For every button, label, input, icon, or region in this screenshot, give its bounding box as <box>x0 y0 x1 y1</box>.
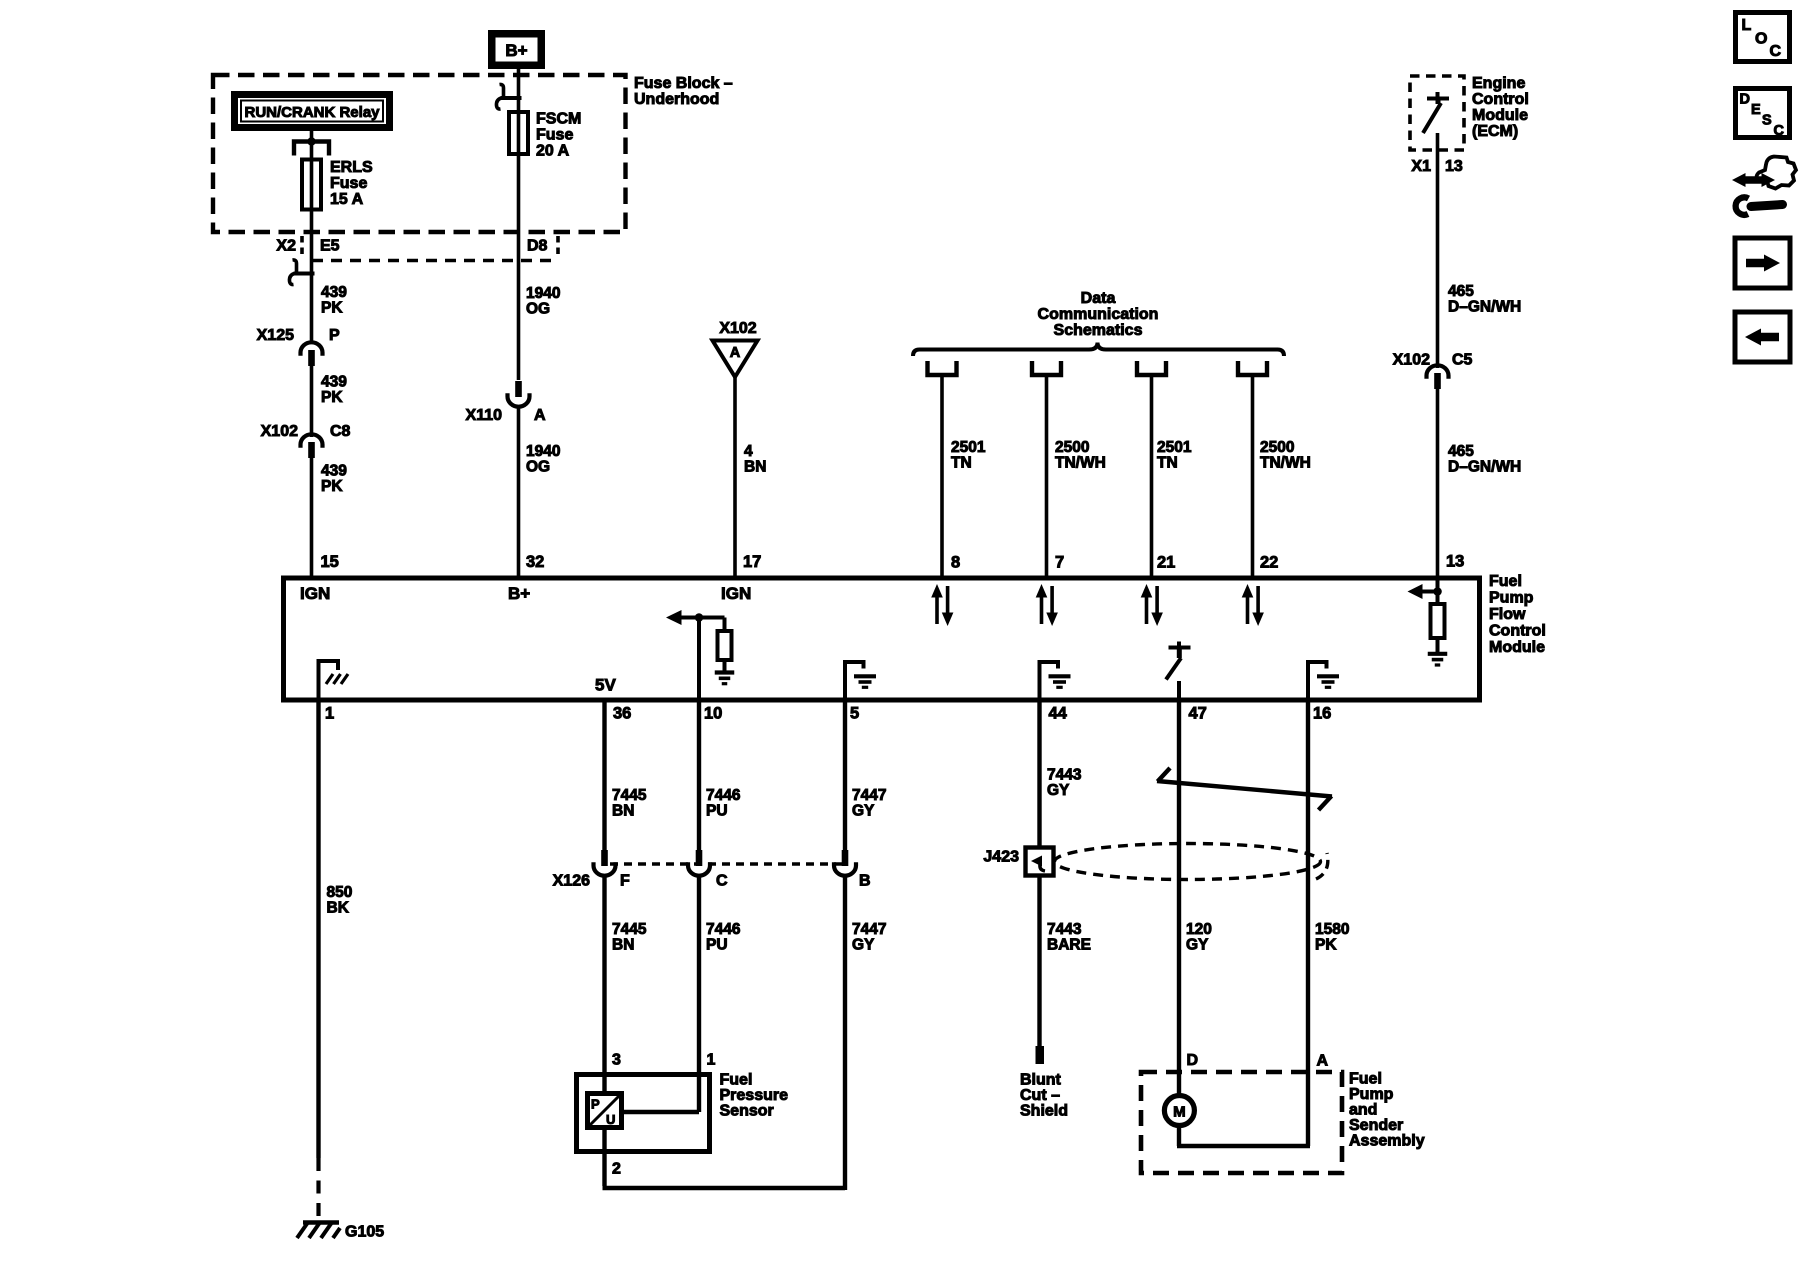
svg-text:17: 17 <box>743 553 761 571</box>
internal arrow, resistor, ground at pin 13 <box>1408 578 1448 665</box>
connector X102 pin C5 <box>1427 365 1449 389</box>
svg-text:D–GN/WH: D–GN/WH <box>1448 299 1521 316</box>
svg-text:439: 439 <box>321 374 347 391</box>
svg-text:BK: BK <box>327 900 350 917</box>
svg-text:7445: 7445 <box>612 787 647 804</box>
svg-text:Fuse Block –: Fuse Block – <box>634 75 733 92</box>
svg-text:Control: Control <box>1472 91 1529 108</box>
svg-text:A: A <box>730 345 741 361</box>
data comm terminal / wire 2501 TN pin 8 <box>928 361 986 576</box>
svg-text:Shield: Shield <box>1020 1103 1068 1120</box>
svg-text:PK: PK <box>321 300 343 317</box>
svg-text:32: 32 <box>526 553 544 571</box>
connector X110 pin A <box>508 381 530 407</box>
svg-text:439: 439 <box>321 284 347 301</box>
wire 7447 GY upper <box>843 701 847 850</box>
internal chassis ground at pin 1 <box>319 661 349 701</box>
svg-text:Flow: Flow <box>1489 606 1526 623</box>
svg-text:BARE: BARE <box>1047 937 1091 954</box>
fuel pump assembly dashed box <box>1141 1072 1342 1173</box>
svg-text:Blunt: Blunt <box>1020 1072 1062 1089</box>
svg-text:15 A: 15 A <box>330 191 364 208</box>
wire sensor return bottom <box>603 1186 846 1191</box>
wire 439 PK segment 2 <box>310 366 314 437</box>
svg-text:B+: B+ <box>508 584 530 603</box>
svg-text:O: O <box>1755 31 1767 48</box>
svg-text:E5: E5 <box>320 238 340 255</box>
up/down data arrows pin 8 <box>931 584 953 626</box>
wire 439 PK segment 3 into module pin 15 <box>310 458 314 576</box>
svg-text:FSCM: FSCM <box>536 111 581 128</box>
svg-text:Schematics: Schematics <box>1054 322 1143 339</box>
svg-text:IGN: IGN <box>721 584 751 603</box>
svg-text:20 A: 20 A <box>536 143 570 160</box>
svg-text:13: 13 <box>1446 553 1464 571</box>
svg-text:S: S <box>1762 113 1772 129</box>
svg-text:7446: 7446 <box>706 787 741 804</box>
wire 7446 PU upper <box>697 701 701 850</box>
svg-text:1580: 1580 <box>1315 921 1349 938</box>
connector X126 pin B <box>834 850 856 876</box>
up/down data arrows pin 22 <box>1242 584 1264 626</box>
svg-text:E: E <box>1751 102 1761 118</box>
svg-text:D–GN/WH: D–GN/WH <box>1448 459 1521 476</box>
svg-text:7447: 7447 <box>852 787 886 804</box>
svg-text:Pressure: Pressure <box>720 1087 789 1104</box>
label ERLS Fuse 15 A <box>330 159 373 208</box>
svg-text:1: 1 <box>325 705 334 723</box>
svg-text:G105: G105 <box>345 1224 384 1241</box>
shield dashed ellipse <box>1055 844 1321 880</box>
svg-text:X110: X110 <box>466 407 503 424</box>
splice arrow inside J423 <box>1031 856 1045 872</box>
power node B+ <box>488 30 545 69</box>
wire 7443 GY <box>1037 701 1041 848</box>
svg-text:PK: PK <box>321 478 343 495</box>
relay contact bracket terminal <box>294 137 329 155</box>
node X102 A triangle <box>713 320 758 377</box>
connector X126 pin C <box>688 850 710 876</box>
svg-text:Pump: Pump <box>1349 1086 1394 1103</box>
svg-text:22: 22 <box>1260 554 1278 572</box>
svg-text:L: L <box>1742 17 1752 34</box>
svg-text:Assembly: Assembly <box>1349 1133 1425 1150</box>
svg-text:5V: 5V <box>595 676 616 695</box>
svg-text:RUN/CRANK Relay: RUN/CRANK Relay <box>244 104 380 121</box>
svg-text:7443: 7443 <box>1047 921 1082 938</box>
wire 1940 OG segment 2 into module pin 32 <box>517 405 521 576</box>
svg-text:Data: Data <box>1081 290 1116 307</box>
X126 dashed connector line <box>610 862 845 866</box>
svg-text:3: 3 <box>612 1052 621 1069</box>
svg-text:44: 44 <box>1049 705 1068 723</box>
label Fuel Pump Flow Control Module <box>1489 573 1546 656</box>
svg-text:C: C <box>1774 123 1785 139</box>
label Fuse Block - Underhood <box>634 75 733 108</box>
wire 850 BK <box>316 701 320 1158</box>
svg-text:36: 36 <box>613 705 631 723</box>
svg-text:TN: TN <box>1157 455 1178 472</box>
splice J423 <box>983 848 1053 876</box>
svg-text:X102: X102 <box>1393 352 1430 369</box>
svg-text:Fuel: Fuel <box>1489 573 1522 590</box>
svg-text:A: A <box>534 407 546 424</box>
svg-text:D: D <box>1187 1052 1199 1069</box>
svg-text:8: 8 <box>951 554 960 572</box>
wire 4 BN into module pin 17 <box>733 375 737 576</box>
svg-text:2500: 2500 <box>1260 439 1294 456</box>
svg-text:U: U <box>606 1112 615 1127</box>
wire B+ to FSCM fuse <box>517 69 521 112</box>
connector X102 pin C8 <box>301 434 323 458</box>
data comm terminal / wire 2501 TN pin 21 <box>1137 361 1192 576</box>
svg-text:2500: 2500 <box>1055 439 1089 456</box>
svg-text:1940: 1940 <box>526 443 560 460</box>
wire 7445 BN lower <box>602 874 606 1095</box>
connector X125 pin P <box>301 342 323 366</box>
icon LOC button <box>1736 13 1790 62</box>
svg-text:X1: X1 <box>1411 158 1431 175</box>
wire 1940 OG segment 1 <box>517 232 521 380</box>
pump pins D and A <box>1187 1052 1329 1070</box>
svg-text:Underhood: Underhood <box>634 91 719 108</box>
wire 7445 BN upper <box>602 701 606 850</box>
svg-text:15: 15 <box>321 553 339 571</box>
wire 465 D-GN/WH segment 2 into module pin 13 <box>1436 389 1440 576</box>
label Fuel Pressure Sensor <box>720 1072 789 1120</box>
fuse ERLS 15A <box>302 160 321 233</box>
svg-text:850: 850 <box>327 884 353 901</box>
svg-text:7445: 7445 <box>612 921 647 938</box>
svg-text:1: 1 <box>707 1052 716 1069</box>
icon DESC button <box>1736 89 1790 140</box>
svg-text:X102: X102 <box>261 423 298 440</box>
brace for data communication <box>913 343 1284 357</box>
svg-text:GY: GY <box>852 937 875 954</box>
svg-text:Fuel: Fuel <box>720 1072 753 1089</box>
svg-text:Module: Module <box>1472 107 1528 124</box>
svg-text:C: C <box>1770 43 1782 60</box>
svg-text:P: P <box>591 1097 600 1112</box>
svg-text:X125: X125 <box>257 327 294 344</box>
svg-text:P: P <box>329 327 340 344</box>
internal ground at pin 5 <box>845 662 876 701</box>
svg-text:and: and <box>1349 1102 1377 1119</box>
svg-text:PU: PU <box>706 937 728 954</box>
svg-text:Communication: Communication <box>1038 306 1159 323</box>
svg-text:GY: GY <box>852 803 875 820</box>
terminal hook below ERLS fuse (X2 E5) <box>289 260 314 285</box>
data comm terminal / wire 2500 TN/WH pin 22 <box>1238 361 1311 576</box>
svg-text:Fuse: Fuse <box>330 175 367 192</box>
svg-text:D8: D8 <box>527 238 548 255</box>
svg-text:OG: OG <box>526 459 550 476</box>
label FSCM Fuse 20 A <box>536 111 581 160</box>
module U7: Fuel Pump Flow Control Module box <box>284 578 1480 700</box>
connector row X2: E5 / D8 <box>276 236 558 261</box>
svg-text:C5: C5 <box>1452 352 1473 369</box>
icon back arrow button <box>1735 312 1790 362</box>
switch inside ECM <box>1423 92 1449 133</box>
wire sensor pin 2 <box>605 1127 622 1186</box>
internal ground at pin 44 <box>1040 662 1071 701</box>
svg-text:C: C <box>716 873 728 890</box>
labels X126 F C B <box>553 873 871 890</box>
svg-text:X126: X126 <box>553 873 590 890</box>
fuse FSCM 20A <box>509 112 528 232</box>
label Data Communication Schematics <box>1038 290 1159 339</box>
svg-text:Sensor: Sensor <box>720 1103 774 1120</box>
svg-text:PK: PK <box>1315 937 1337 954</box>
wire 120 GY pin 47 to D <box>1177 701 1181 1097</box>
svg-text:439: 439 <box>321 463 347 480</box>
svg-text:Control: Control <box>1489 623 1546 640</box>
svg-text:5: 5 <box>850 705 859 723</box>
terminal hook above FSCM fuse <box>496 84 521 109</box>
svg-text:ERLS: ERLS <box>330 159 373 176</box>
connector row X1 pin 13 <box>1411 158 1462 175</box>
dashed wire to G105 <box>316 1158 320 1219</box>
svg-text:IGN: IGN <box>300 584 330 603</box>
wire motor to return <box>1177 1125 1181 1146</box>
svg-text:2501: 2501 <box>951 439 986 456</box>
ECM dashed box <box>1410 76 1464 150</box>
internal switch at pin 47 <box>1166 642 1191 702</box>
svg-text:OG: OG <box>526 301 550 318</box>
label Fuel Pump and Sender Assembly <box>1349 1071 1425 1150</box>
icon next arrow button <box>1735 238 1790 288</box>
svg-text:GY: GY <box>1047 782 1070 799</box>
svg-text:465: 465 <box>1448 283 1474 300</box>
label Engine Control Module (ECM) <box>1472 75 1529 140</box>
svg-text:TN: TN <box>951 455 972 472</box>
svg-text:D: D <box>1740 92 1750 108</box>
fuel pressure sensor box <box>577 1075 710 1152</box>
svg-text:120: 120 <box>1186 921 1212 938</box>
svg-text:PU: PU <box>706 803 728 820</box>
wire 7446 PU lower <box>697 874 701 1112</box>
sensor pins 3 and 1 <box>612 1052 716 1069</box>
svg-text:(ECM): (ECM) <box>1472 123 1518 140</box>
svg-text:Engine: Engine <box>1472 75 1525 92</box>
svg-text:J423: J423 <box>983 849 1019 866</box>
svg-text:F: F <box>620 873 630 890</box>
fuse block underhood dashed box <box>213 75 626 232</box>
svg-text:M: M <box>1173 1104 1186 1121</box>
svg-text:16: 16 <box>1313 705 1331 723</box>
wire pump return bottom <box>1177 1144 1310 1148</box>
svg-text:Module: Module <box>1489 639 1545 656</box>
svg-text:Fuel: Fuel <box>1349 1071 1382 1088</box>
svg-text:1940: 1940 <box>526 285 560 302</box>
svg-text:Fuse: Fuse <box>536 127 573 144</box>
svg-text:TN/WH: TN/WH <box>1260 455 1311 472</box>
pin labels below module <box>325 705 1331 723</box>
wire 465 D-GN/WH segment 1 <box>1436 133 1440 368</box>
blunt cut shield terminal <box>1020 1046 1068 1120</box>
wire 1580 PK pin 16 to A <box>1306 701 1310 1146</box>
svg-text:Sender: Sender <box>1349 1117 1403 1134</box>
up/down data arrows pin 21 <box>1141 584 1163 626</box>
wire 7443 BARE <box>1037 875 1041 1046</box>
svg-text:4: 4 <box>744 443 753 460</box>
relay K: RUN/CRANK Relay box <box>231 91 393 131</box>
svg-text:465: 465 <box>1448 443 1474 460</box>
svg-text:BN: BN <box>744 459 766 476</box>
svg-text:2: 2 <box>612 1161 621 1178</box>
svg-text:PK: PK <box>321 389 343 406</box>
svg-text:10: 10 <box>704 705 722 723</box>
connector X126 pin F <box>594 850 616 876</box>
svg-text:7447: 7447 <box>852 921 886 938</box>
motor M fuel pump <box>1164 1096 1194 1126</box>
svg-text:BN: BN <box>612 937 634 954</box>
svg-text:TN/WH: TN/WH <box>1055 455 1106 472</box>
wire 439 PK segment 1 <box>310 232 314 344</box>
svg-text:21: 21 <box>1157 554 1175 572</box>
internal pull-up: arrow, resistor, ground at pin 10 <box>666 610 734 701</box>
svg-text:C8: C8 <box>330 423 351 440</box>
svg-text:B: B <box>859 873 871 890</box>
icon hotlink (double arrow, outline, wrench) <box>1732 157 1796 215</box>
twisted pair flourish arrow <box>1157 768 1332 810</box>
wire sensor pin1 link <box>622 1110 699 1115</box>
sensor transducer P/U box <box>588 1094 622 1128</box>
svg-text:BN: BN <box>612 803 634 820</box>
svg-text:7446: 7446 <box>706 921 741 938</box>
svg-text:GY: GY <box>1186 937 1209 954</box>
data comm terminal / wire 2500 TN/WH pin 7 <box>1032 361 1106 576</box>
svg-text:7: 7 <box>1055 554 1064 572</box>
ground G105 <box>297 1223 384 1241</box>
svg-text:B+: B+ <box>505 41 527 60</box>
wire 7447 GY lower <box>843 874 847 1190</box>
svg-text:47: 47 <box>1189 705 1207 723</box>
svg-text:7443: 7443 <box>1047 767 1082 784</box>
svg-text:X2: X2 <box>276 238 296 255</box>
wire relay output to ERLS fuse <box>310 131 314 160</box>
svg-text:Cut –: Cut – <box>1020 1087 1060 1104</box>
label 439 PK <box>321 284 347 317</box>
internal ground at pin 16 <box>1308 662 1339 701</box>
up/down data arrows pin 7 <box>1036 584 1058 626</box>
svg-text:13: 13 <box>1445 158 1463 175</box>
svg-text:2501: 2501 <box>1157 439 1192 456</box>
svg-text:Pump: Pump <box>1489 590 1534 607</box>
svg-text:X102: X102 <box>719 320 756 337</box>
svg-text:A: A <box>1317 1053 1329 1070</box>
